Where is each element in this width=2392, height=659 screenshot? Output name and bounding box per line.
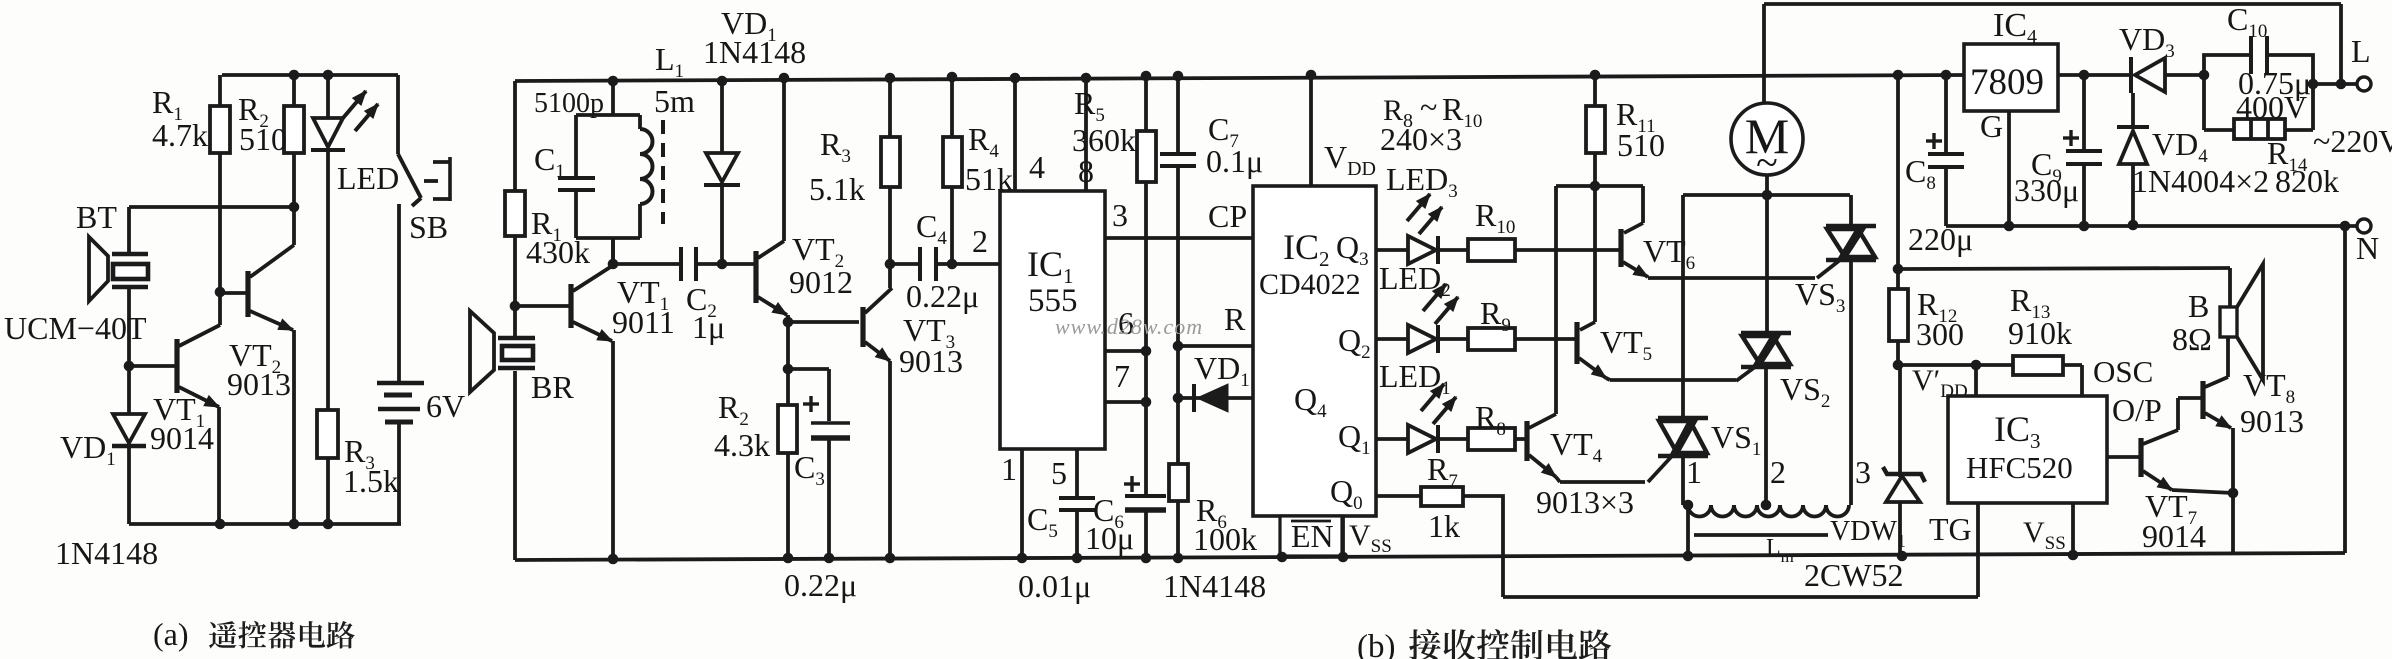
svg-text:10μ: 10μ (1085, 520, 1134, 556)
label VT1 9011 (612, 274, 675, 340)
resistor R10 (240) (1438, 239, 1619, 261)
wire Q2 output (1376, 337, 1408, 341)
svg-text:100k: 100k (1193, 521, 1257, 557)
label Q1 (1338, 418, 1371, 459)
wire to L terminal (2313, 4, 2356, 89)
svg-text:R: R (1224, 301, 1246, 337)
label pin 3 (1112, 197, 1128, 233)
wire Q3 output (1376, 248, 1408, 252)
wire VT4 collector riser (1554, 186, 1558, 414)
svg-text:2CW52: 2CW52 (1804, 557, 1904, 593)
LED indicator diode (311, 70, 378, 410)
transistor VT4 (9013) (1525, 414, 1560, 482)
node emitter junction (2228, 488, 2239, 499)
node R1/BR/VT1 base junction (510, 301, 521, 312)
label C7 0.1u (1206, 111, 1263, 179)
svg-text:2: 2 (972, 223, 988, 259)
terminal L (2357, 77, 2371, 91)
node reset line junction (1173, 341, 1253, 352)
label O/P (2112, 392, 2162, 428)
wire R12 column upper (1896, 75, 1900, 269)
svg-text:9011: 9011 (612, 304, 675, 340)
regulator IC4 (7809) (1964, 44, 2058, 111)
label R3 1.5k (343, 433, 399, 499)
wire N drop to audio ground (2343, 226, 2347, 553)
svg-text:~: ~ (1420, 89, 1437, 125)
battery 6V (377, 383, 424, 524)
node R3/C4 junction (885, 259, 896, 270)
VDD pin stub (1306, 70, 1317, 186)
label Lm (1766, 535, 1794, 566)
transistor VT3 (9013) (863, 288, 892, 558)
capacitor C2 (1u) (613, 247, 756, 281)
resistor R1 (4.7k) (210, 75, 230, 292)
label VD1 (reset) (1194, 350, 1250, 391)
label UCM-40T (4, 310, 147, 346)
label VS2 (1780, 371, 1830, 412)
label B 8ohm (2172, 288, 2212, 357)
svg-text:6V: 6V (426, 388, 465, 424)
svg-text:LED: LED (337, 160, 399, 196)
label VD1 1N4148 (top) (703, 5, 806, 70)
counter IC2 (CD4022) (1253, 186, 1376, 516)
label tap 3 (1855, 454, 1871, 490)
label R2 510 (238, 91, 287, 157)
svg-text:7: 7 (1114, 358, 1130, 394)
node tank top junction (608, 76, 619, 87)
svg-text:9014: 9014 (2142, 518, 2206, 554)
label BR (531, 369, 574, 405)
label 1N4004x2 (2132, 163, 2269, 199)
label pin 7 (1114, 358, 1130, 394)
label pin 4 (1029, 149, 1045, 185)
pin 6 stub (1105, 346, 1151, 357)
resistor R1 (430k) (505, 81, 525, 306)
TG pin divider (1976, 503, 1980, 597)
svg-text:0.01μ: 0.01μ (1018, 568, 1091, 604)
wire VT6 emitter to VS3 gate (1648, 276, 1815, 280)
resistor R2 (4.3k) (778, 405, 797, 559)
label L1 5m (654, 41, 695, 119)
label R2 4.3k (714, 389, 770, 463)
capacitor C4 (0.22u) (890, 247, 952, 281)
svg-text:LED2: LED2 (1379, 260, 1451, 301)
node lower rail junction (1893, 264, 1904, 275)
capacitor C8 (220u) (1926, 70, 1964, 226)
wire VT5 emitter to VS2 gate (1610, 378, 1736, 382)
label Vdd' (1912, 364, 1968, 402)
label C4 0.22u (906, 208, 979, 314)
label C9 330u (2014, 146, 2079, 208)
svg-text:TG: TG (1929, 511, 1972, 547)
label Q4 (1294, 381, 1327, 422)
wire VT2 collector to rail (779, 73, 790, 241)
transducer BR (ultrasonic receiver) (470, 306, 535, 560)
label VSS (IC3) (2023, 516, 2066, 554)
transistor VT1 (9014) (129, 325, 220, 524)
wire motor top rail (1764, 2, 2341, 6)
svg-text:820k: 820k (2275, 163, 2339, 199)
node VT3 base tap (783, 317, 859, 328)
label Q3 (1336, 229, 1369, 270)
transistor VT2 (9013) (220, 245, 294, 524)
label 6V (426, 388, 465, 424)
label VT8 9013 (2240, 367, 2304, 439)
label R12 300 (1916, 286, 1964, 352)
label LED (337, 160, 399, 196)
svg-text:1μ: 1μ (692, 309, 725, 345)
label VD4 (2152, 126, 2208, 167)
svg-text:9014: 9014 (150, 420, 214, 456)
inductor Lm (motor speed winding) (1683, 500, 1849, 557)
triac VS3 (1817, 195, 1876, 505)
node VT2 base junction (215, 287, 226, 325)
LED2 diode (1408, 284, 1458, 353)
label IC3 HFC520 (1966, 409, 2073, 485)
node BT / VT1 base junction (124, 361, 135, 372)
switch SB (398, 75, 450, 384)
triac VS1 (1648, 195, 1708, 505)
capacitor C9 (330u) (2063, 75, 2102, 231)
pin 5 stub (1075, 449, 1079, 496)
diode VD1 (1N4148, reset) (1178, 384, 1253, 412)
label 0.75u 400V (2236, 65, 2311, 125)
label VS1 (1711, 419, 1761, 460)
transistor VT6 (9013) (1621, 223, 1648, 277)
wire VT7 collector to VT8 base (2178, 398, 2203, 430)
transistor VT2 (9012) (756, 241, 788, 404)
resistor R2 (510) (284, 70, 304, 207)
svg-text:9013: 9013 (227, 366, 291, 402)
svg-text:240×3: 240×3 (1380, 121, 1462, 157)
label R4 51k (965, 121, 1013, 197)
label LED1 (1379, 358, 1451, 399)
node VD1 anode junction (1173, 346, 1184, 403)
label VD1 (60, 429, 116, 470)
pin 4 stub (1010, 73, 1021, 191)
label VT2 9012 (789, 231, 853, 300)
caption (b) receiver control circuit (1357, 629, 1611, 659)
svg-text:BT: BT (76, 199, 117, 235)
label C3 (794, 449, 825, 490)
label R9 (1480, 295, 1511, 336)
label tap 2 (1770, 454, 1786, 490)
pin 8 stub (1081, 73, 1092, 191)
svg-text:HFC520: HFC520 (1966, 450, 2073, 485)
wire VT4 emitter to VS1 gate (1560, 480, 1645, 484)
svg-text:1N4148: 1N4148 (1163, 568, 1266, 604)
wire main top supply rail (515, 75, 1964, 81)
label R1 4.7k (152, 84, 208, 153)
svg-text:9013×3: 9013×3 (1536, 484, 1634, 520)
svg-text:3: 3 (1112, 197, 1128, 233)
label VT4 (1550, 426, 1603, 467)
svg-text:B: B (2188, 288, 2209, 324)
resistor R9 (240) (1438, 328, 1575, 350)
wire audio supply rail (1900, 268, 2230, 269)
label VT3 9013 (899, 312, 963, 379)
label VDW1 (1830, 516, 1906, 551)
svg-text:VDW1: VDW1 (1830, 516, 1906, 551)
svg-text:510: 510 (1617, 127, 1665, 163)
zener VDW1 (2CW52) (1883, 365, 1925, 556)
svg-text:0.22μ: 0.22μ (906, 278, 979, 314)
wire C4 to 555 pin 2 (952, 262, 1000, 266)
label VS3 (1795, 276, 1845, 317)
capacitor C3 (0.22u electrolytic) (803, 369, 850, 558)
wire TG control line (1503, 595, 1978, 599)
resistor R6 (100k) (1169, 398, 1188, 563)
svg-text:5.1k: 5.1k (809, 171, 865, 207)
label IC2 CD4022 (1259, 227, 1361, 301)
transistor VT1 (9011) (515, 266, 613, 560)
wire VT3 collector (888, 264, 892, 288)
svg-text:CP: CP (1208, 198, 1247, 234)
svg-text:OSC: OSC (2093, 354, 2153, 389)
VSS divider (1341, 516, 1345, 556)
label pin 6 (1118, 305, 1134, 341)
wire top rail of remote section (222, 73, 398, 77)
label R14 820k (2267, 135, 2339, 199)
transistor VT7 (9014) (2141, 430, 2233, 493)
VSS divider (IC3) (2068, 503, 2079, 560)
label CP (1208, 198, 1247, 234)
label R5 360k (1072, 85, 1136, 158)
label IC4 (1993, 7, 2037, 48)
svg-text:1.5k: 1.5k (343, 463, 399, 499)
label VT6 (1643, 233, 1695, 274)
label C10 (2227, 1, 2267, 42)
label C1 (534, 141, 565, 182)
node supply rail / R12 column (1893, 70, 1904, 81)
svg-text:~220V: ~220V (2313, 123, 2392, 159)
resistor R14 (820k) (2234, 119, 2285, 139)
label R (reset pin) (1224, 301, 1246, 337)
diode VD4 (1N4004) (2117, 93, 2149, 230)
svg-text:BR: BR (531, 369, 574, 405)
label pin 2 (972, 223, 988, 259)
label Q2 (1338, 322, 1371, 363)
pin 7 stub (1105, 397, 1151, 408)
label 1N4148 (55, 535, 158, 571)
label EN (1291, 518, 1334, 554)
svg-text:UCM−40T: UCM−40T (4, 310, 147, 346)
label C5 0.01u (1018, 501, 1091, 604)
svg-text:5m: 5m (654, 83, 695, 119)
svg-text:4: 4 (1029, 149, 1045, 185)
node R2/C3 junction (783, 364, 829, 375)
label TG (1929, 511, 1972, 547)
label N (2356, 230, 2379, 266)
terminal N (2357, 219, 2371, 233)
svg-text:EN: EN (1291, 518, 1334, 554)
resistor R3 (1.5k) (317, 410, 338, 524)
resistor R11 (510) (1586, 70, 1605, 322)
label 5100p (534, 88, 604, 119)
label VDD (1324, 139, 1376, 180)
svg-text:CD4022: CD4022 (1259, 268, 1361, 301)
svg-text:5: 5 (1051, 455, 1067, 491)
node VD1/C2/VT2 base junction (717, 259, 728, 270)
svg-text:8: 8 (1078, 153, 1094, 189)
resistor R8 (240) (1438, 428, 1525, 450)
motor M (1731, 4, 1803, 195)
capacitor C7 (0.1u) (1160, 71, 1196, 346)
node VT1 collector junction (608, 238, 619, 269)
svg-text:www.d28w.com: www.d28w.com (1055, 314, 1203, 339)
svg-text:360k: 360k (1072, 122, 1136, 158)
svg-text:910k: 910k (2008, 315, 2072, 351)
label R6 100k (1193, 492, 1257, 557)
label VT1 9014 (150, 391, 214, 456)
svg-text:L: L (2351, 33, 2371, 69)
core dashed line of L1 (661, 120, 665, 224)
svg-text:1: 1 (1686, 454, 1702, 490)
resistor R3 (5.1k) (881, 73, 900, 264)
svg-text:2: 2 (1770, 454, 1786, 490)
label ~220V (2313, 123, 2392, 159)
label R1 430k (526, 205, 590, 270)
label R11 510 (1616, 96, 1665, 163)
svg-text:N: N (2356, 230, 2379, 266)
svg-text:3: 3 (1855, 454, 1871, 490)
label VD3 (2119, 21, 2175, 62)
op-amp/timer IC1 (555) (1000, 191, 1105, 449)
label C6 10u (1085, 492, 1134, 556)
svg-text:9013: 9013 (899, 343, 963, 379)
label VT5 (1600, 324, 1652, 365)
svg-text:9013: 9013 (2240, 403, 2304, 439)
pin 1 ground stub (1017, 449, 1028, 563)
svg-text:G: G (1980, 108, 2003, 144)
label LED2 (1379, 260, 1451, 301)
label R3 5.1k (809, 126, 865, 207)
label BT (76, 199, 117, 235)
svg-text:1N4004×2: 1N4004×2 (2132, 163, 2269, 199)
label 1N4148 (reset diode) (1163, 568, 1266, 604)
G pin stub (2004, 111, 2015, 231)
label R13 910k (2008, 282, 2072, 351)
resistor R13 (910k) (2013, 356, 2082, 396)
label 2CW52 (1804, 557, 1904, 593)
label pin 1 (1001, 451, 1017, 487)
speaker B (8 ohm) (2220, 264, 2263, 380)
label VT2 9013 (227, 337, 291, 402)
transistor VT8 (9013) (2203, 377, 2233, 553)
label VT7 9014 (2142, 488, 2206, 554)
svg-text:510: 510 (239, 121, 287, 157)
label G (1980, 108, 2003, 144)
svg-text:(b): (b) (1357, 629, 1395, 659)
label R7 1k (1427, 451, 1460, 544)
label R10 (1475, 197, 1515, 238)
music IC3 (HFC520) (1948, 396, 2107, 503)
watermark (1055, 314, 1203, 339)
svg-text:1: 1 (1001, 451, 1017, 487)
svg-text:300: 300 (1916, 316, 1964, 352)
LED1 diode (1408, 384, 1456, 453)
wire VT2 collector (292, 207, 296, 245)
resistor R12 (300) (1889, 269, 1908, 365)
svg-text:1N4148: 1N4148 (703, 34, 806, 70)
caption (a) remote-control circuit (153, 616, 355, 652)
wire O/P output (2107, 455, 2139, 459)
svg-text:1k: 1k (1428, 508, 1460, 544)
diode VD1 (1N4148, receiver top) (704, 76, 740, 264)
label pin 5 (1051, 455, 1067, 491)
wire Vdd-R13 link (1900, 360, 2013, 396)
wire 7809 output (2058, 70, 2131, 81)
transducer BT (ultrasonic emitter) (89, 207, 148, 366)
label Q0 (1330, 473, 1363, 514)
svg-text:1N4148: 1N4148 (55, 535, 158, 571)
wire N/ground mid rail (1946, 221, 2356, 232)
wire Q1 output (1376, 437, 1408, 441)
label 0.22u (C3) (784, 567, 857, 603)
resistor R7 (1k) (1421, 487, 1503, 597)
svg-text:O/P: O/P (2112, 392, 2162, 428)
label L (2351, 33, 2371, 69)
label LED3 (1386, 161, 1458, 202)
svg-text:LED1: LED1 (1379, 358, 1451, 399)
capacitor C5 (0.01u) (1059, 498, 1095, 558)
label IC1 555 (1027, 244, 1078, 319)
label VSS (CD4022) (1349, 519, 1392, 557)
svg-text:4.3k: 4.3k (714, 427, 770, 463)
resistor R5 (360k) (1137, 71, 1156, 496)
label C2 1u (686, 281, 725, 345)
diode VD3 (1N4004) (2131, 57, 2204, 93)
svg-text:9012: 9012 (789, 264, 853, 300)
wire VT8 collector (2226, 339, 2230, 377)
label 9013x3 (1536, 484, 1634, 520)
wire 555 pin 3 to CD4022 CP (1105, 236, 1253, 240)
label R8 (1475, 399, 1506, 440)
LED3 diode (1407, 194, 1442, 264)
node Vdd' junction (1893, 360, 1904, 371)
label tap 1 (1686, 454, 1702, 490)
wire triac feeder bus (1683, 193, 1850, 197)
svg-text:LED3: LED3 (1386, 161, 1458, 202)
wire VT6 collector drop (1641, 186, 1645, 223)
svg-text:SB: SB (409, 209, 448, 245)
transistor VT5 (9013) (1577, 322, 1610, 380)
label SB (409, 209, 448, 245)
label R8~R10 (1383, 89, 1482, 132)
node motor output junction (1762, 190, 1773, 201)
wire collector tie bar (1556, 181, 1643, 192)
svg-text:4.7k: 4.7k (152, 117, 208, 153)
enable box EN (1280, 516, 1342, 556)
svg-text:330μ: 330μ (2014, 172, 2079, 208)
label OSC (2093, 354, 2153, 389)
capacitor C1 (tank, 5100p) (558, 81, 640, 238)
svg-text:0.22μ: 0.22μ (784, 567, 857, 603)
capacitor C10 (0.75u 400V) block (2199, 36, 2319, 130)
svg-text:7809: 7809 (1970, 62, 2044, 103)
wire main ground rail (515, 551, 2345, 565)
svg-text:8Ω: 8Ω (2172, 321, 2212, 357)
label C8 220u (1905, 153, 1973, 257)
triac VS2 (1736, 195, 1791, 505)
capacitor C6 (10u electrolytic) (1124, 476, 1166, 558)
label 240x3 (1380, 121, 1462, 157)
label pin 8 (1078, 153, 1094, 189)
svg-text:0.1μ: 0.1μ (1206, 143, 1263, 179)
diode VD1 (1N4148, remote) (112, 366, 146, 524)
inductor L1 (5m) (576, 115, 652, 263)
svg-text:(a): (a) (153, 616, 189, 652)
